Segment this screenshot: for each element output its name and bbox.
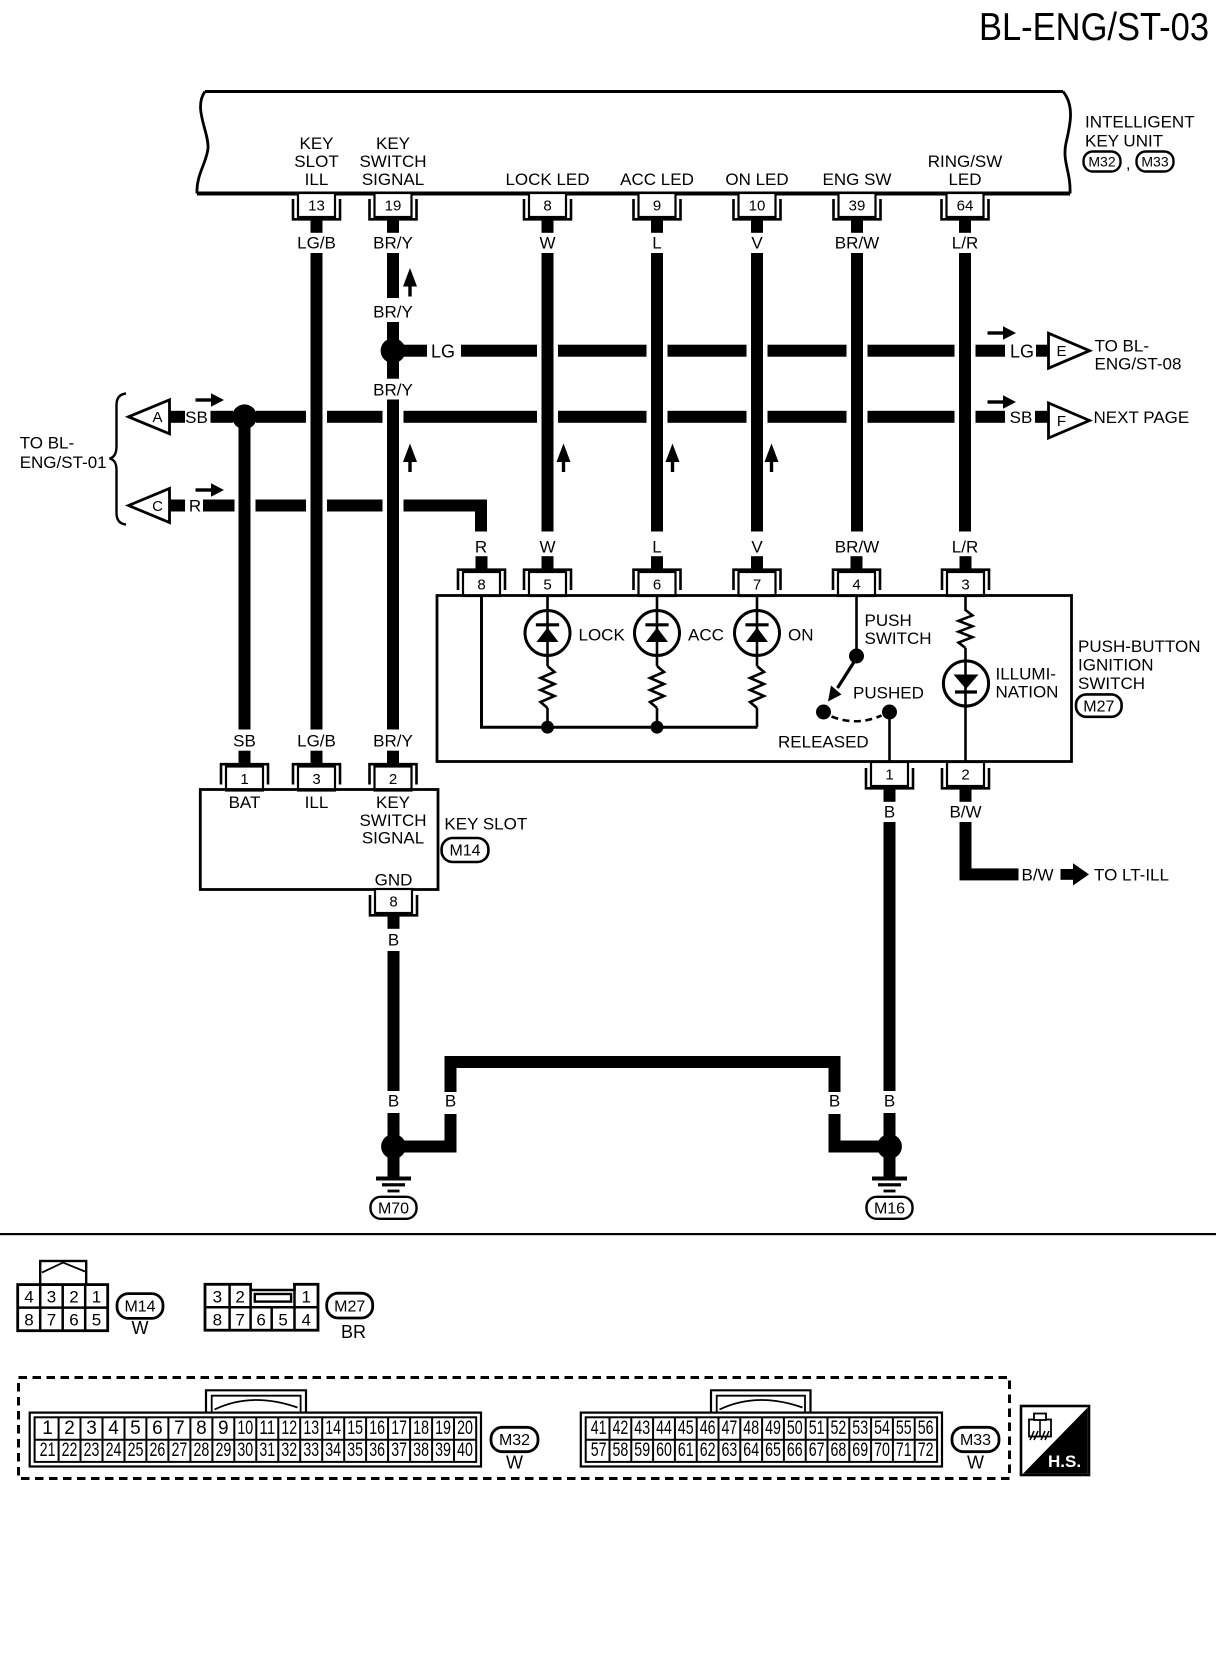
svg-text:F: F (1057, 413, 1066, 430)
wire BR/Y to LG junction (387, 322, 399, 345)
label L/R above pin 3 (952, 538, 978, 557)
label BR/Y above key slot (373, 732, 413, 751)
wire stub A (170, 411, 186, 423)
label TO BL-ENG/ST-08 (1095, 337, 1182, 374)
svg-text:3: 3 (47, 1287, 56, 1306)
svg-text:24: 24 (106, 1440, 122, 1461)
junction dot M70 (381, 1134, 406, 1159)
wire stub SB to dot (211, 411, 234, 423)
separator line (0, 1233, 1216, 1235)
ground M70 (371, 1147, 417, 1219)
connector label M33 (1137, 152, 1174, 172)
svg-text:ENG/ST-01: ENG/ST-01 (20, 453, 107, 472)
svg-text:2: 2 (961, 767, 969, 784)
svg-text:46: 46 (700, 1418, 716, 1439)
svg-text:1: 1 (42, 1418, 53, 1439)
svg-text:27: 27 (172, 1440, 188, 1461)
svg-text:BR/Y: BR/Y (373, 381, 413, 400)
svg-text:R: R (189, 497, 201, 516)
svg-text:,: , (1126, 156, 1130, 173)
wire ACC resistor to bus (656, 708, 659, 727)
svg-text:ILL: ILL (305, 170, 329, 189)
svg-text:KEY SLOT: KEY SLOT (444, 815, 527, 834)
svg-text:17: 17 (391, 1418, 407, 1439)
wire BR/Y upper segment (387, 253, 399, 298)
wire link right vertical lower (829, 1114, 841, 1147)
svg-text:3: 3 (213, 1287, 222, 1306)
wire B to ground M70 (388, 1113, 400, 1141)
label B left (388, 1092, 399, 1111)
svg-text:57: 57 (591, 1440, 607, 1461)
svg-text:SB: SB (233, 732, 256, 751)
svg-text:15: 15 (347, 1418, 363, 1439)
svg-text:LOCK: LOCK (579, 626, 626, 645)
svg-text:72: 72 (918, 1440, 934, 1461)
arrow up on BR/Y upper (403, 268, 417, 297)
svg-text:B: B (884, 803, 895, 822)
label KEY SWITCH SIGNAL (key slot) (359, 793, 426, 848)
svg-text:23: 23 (84, 1440, 100, 1461)
wire link left vertical upper (445, 1056, 457, 1092)
wire V vertical (751, 253, 763, 532)
svg-text:54: 54 (874, 1418, 890, 1439)
svg-text:L/R: L/R (952, 538, 978, 557)
svg-text:32: 32 (281, 1440, 297, 1461)
svg-text:W: W (967, 1453, 984, 1473)
label ILLUMI-NATION (996, 665, 1059, 702)
bus SB horizontal (256, 411, 1005, 423)
svg-text:SIGNAL: SIGNAL (362, 170, 424, 189)
H.S. inspection mark (1021, 1406, 1089, 1475)
label ENG SW (823, 170, 892, 189)
svg-text:68: 68 (831, 1440, 847, 1461)
connector label M27 (bottom) (327, 1293, 373, 1318)
wire link bottom right (829, 1141, 885, 1153)
svg-text:R: R (475, 538, 487, 557)
wire B to ground M16 (884, 1113, 896, 1141)
label ACC (688, 626, 724, 645)
label RING/SW LED (928, 152, 1003, 189)
label W (539, 234, 555, 253)
svg-text:W: W (506, 1453, 523, 1473)
label INTELLIGENT KEY UNIT (1085, 113, 1195, 151)
junction dot LOCK (541, 721, 554, 734)
svg-text:19: 19 (385, 198, 402, 215)
label BR/Y (373, 234, 413, 253)
pin 8 (key slot GND) (370, 889, 417, 929)
wire B switch down (884, 822, 896, 1091)
LED ACC (635, 611, 680, 656)
svg-text:19: 19 (435, 1418, 451, 1439)
svg-text:60: 60 (656, 1440, 672, 1461)
svg-text:25: 25 (128, 1440, 144, 1461)
label L (652, 234, 661, 253)
resistor ACC (650, 666, 664, 708)
label B/W under pin 2 (949, 803, 981, 822)
svg-text:SWITCH: SWITCH (1078, 674, 1145, 693)
svg-text:70: 70 (874, 1440, 890, 1461)
switch arm (828, 662, 854, 702)
svg-text:NATION: NATION (996, 683, 1059, 702)
label ON LED (725, 170, 788, 189)
svg-text:ON: ON (788, 626, 814, 645)
svg-text:A: A (152, 409, 162, 426)
svg-text:39: 39 (849, 198, 866, 215)
switch released dot (816, 705, 831, 720)
svg-text:BL-ENG/ST-03: BL-ENG/ST-03 (979, 6, 1209, 49)
pin 2 (key slot) (370, 751, 417, 791)
svg-text:B/W: B/W (1022, 866, 1054, 885)
svg-text:16: 16 (369, 1418, 385, 1439)
label BR/Y mid2 (373, 381, 413, 400)
arrow up on BR/Y lower (403, 444, 417, 473)
label SB right (1010, 408, 1033, 427)
wire BR/Y lower segment (387, 400, 399, 730)
svg-text:14: 14 (325, 1418, 341, 1439)
wire link bottom left (399, 1141, 457, 1153)
svg-text:53: 53 (852, 1418, 868, 1439)
wire B key slot down (388, 951, 400, 1091)
svg-text:49: 49 (765, 1418, 781, 1439)
pin 1 (key slot) (221, 751, 268, 791)
svg-text:B: B (388, 931, 399, 950)
svg-text:65: 65 (765, 1440, 781, 1461)
label B right (884, 1092, 895, 1111)
label B link left (445, 1092, 456, 1111)
junction dot SB (232, 404, 257, 429)
svg-text:64: 64 (957, 198, 974, 215)
pin 2 (942, 762, 989, 802)
svg-text:10: 10 (749, 198, 766, 215)
svg-text:BR/W: BR/W (835, 234, 879, 253)
svg-text:M27: M27 (1083, 698, 1114, 715)
svg-text:L/R: L/R (952, 234, 978, 253)
svg-text:13: 13 (303, 1418, 319, 1439)
svg-text:56: 56 (918, 1418, 934, 1439)
svg-text:64: 64 (743, 1440, 759, 1461)
svg-text:3: 3 (961, 577, 969, 594)
connector C from BL-ENG/ST-01 (129, 489, 170, 523)
label R left (189, 497, 201, 516)
svg-text:45: 45 (678, 1418, 694, 1439)
svg-text:1: 1 (240, 771, 248, 788)
svg-text:2: 2 (69, 1287, 78, 1306)
svg-text:67: 67 (809, 1440, 825, 1461)
svg-text:43: 43 (634, 1418, 650, 1439)
svg-text:ILL: ILL (305, 793, 329, 812)
wire LG/B vertical (311, 253, 323, 730)
svg-text:W: W (132, 1318, 149, 1338)
svg-text:2: 2 (235, 1287, 244, 1306)
label SB above key slot (233, 732, 256, 751)
wire pushed to pin1 (888, 718, 891, 761)
svg-text:SB: SB (185, 408, 208, 427)
connector M27 pin view (205, 1281, 318, 1330)
label LOCK LED (505, 170, 589, 189)
arrow to LT-ILL (1061, 863, 1090, 885)
svg-text:B/W: B/W (949, 803, 981, 822)
arrow right on LG end (988, 326, 1017, 340)
switch pushed dot (882, 705, 897, 720)
pin 5 (524, 556, 571, 596)
svg-text:4: 4 (24, 1287, 33, 1306)
pin 3 (key slot) (293, 751, 340, 791)
label ON (788, 626, 814, 645)
svg-text:TO BL-: TO BL- (1095, 337, 1149, 356)
label W under M33 (967, 1453, 984, 1473)
wire pin5 to LED (546, 596, 549, 666)
arrow right near C (196, 483, 225, 497)
svg-text:1: 1 (301, 1287, 310, 1306)
label NEXT PAGE (1094, 408, 1190, 427)
connector label M14 (side) (442, 838, 489, 862)
svg-text:52: 52 (831, 1418, 847, 1439)
label W under M14 (132, 1318, 149, 1338)
wire SB drop to key slot (239, 417, 251, 730)
switch pivot dot (849, 649, 864, 664)
svg-text:66: 66 (787, 1440, 803, 1461)
svg-text:6: 6 (69, 1310, 78, 1329)
svg-text:39: 39 (435, 1440, 451, 1461)
svg-text:30: 30 (237, 1440, 253, 1461)
svg-text:50: 50 (787, 1418, 803, 1439)
svg-text:M32: M32 (499, 1432, 530, 1449)
svg-text:51: 51 (809, 1418, 825, 1439)
junction dot BR/Y-LG (381, 338, 406, 363)
svg-text:GND: GND (375, 871, 413, 890)
svg-text:8: 8 (213, 1310, 222, 1329)
svg-text:41: 41 (591, 1418, 607, 1439)
svg-text:13: 13 (308, 198, 325, 215)
switch dashed arc (832, 716, 882, 722)
svg-text:11: 11 (259, 1418, 275, 1439)
label W above pin 5 (539, 538, 555, 557)
label TO LT-ILL (1094, 866, 1169, 885)
wire link right vertical upper (829, 1056, 841, 1092)
wire pin8 internal (482, 596, 758, 727)
svg-text:34: 34 (325, 1440, 341, 1461)
comma (1126, 156, 1130, 173)
svg-text:INTELLIGENT: INTELLIGENT (1085, 113, 1195, 132)
svg-text:W: W (539, 234, 555, 253)
svg-text:SWITCH: SWITCH (865, 629, 932, 648)
svg-text:M14: M14 (449, 843, 480, 860)
svg-text:28: 28 (193, 1440, 209, 1461)
svg-text:37: 37 (391, 1440, 407, 1461)
svg-text:9: 9 (218, 1418, 229, 1439)
label BR/W (835, 234, 879, 253)
label BAT (229, 793, 261, 812)
svg-text:L: L (652, 538, 661, 557)
svg-text:8: 8 (389, 894, 397, 911)
wire L vertical (651, 253, 663, 532)
svg-text:2: 2 (389, 771, 397, 788)
label L/R (952, 234, 978, 253)
label LG/B above key slot (297, 732, 336, 751)
label B/W right (1022, 866, 1054, 885)
svg-text:7: 7 (174, 1418, 185, 1439)
arrow right on SB end (988, 395, 1017, 409)
svg-text:3: 3 (86, 1418, 97, 1439)
svg-text:LOCK LED: LOCK LED (505, 170, 589, 189)
svg-text:4: 4 (852, 577, 860, 594)
wire link top horizontal (445, 1056, 841, 1068)
svg-text:M27: M27 (334, 1298, 365, 1315)
svg-text:58: 58 (613, 1440, 629, 1461)
label LG left (431, 342, 455, 362)
label V (751, 234, 763, 253)
svg-text:7: 7 (753, 577, 761, 594)
label B under key slot (388, 931, 399, 950)
pin 19 (370, 193, 417, 233)
svg-text:SB: SB (1010, 408, 1033, 427)
wire LOCK resistor to bus (546, 708, 549, 727)
label W under M32 (506, 1453, 523, 1473)
svg-text:8: 8 (196, 1418, 207, 1439)
wire B/W down (960, 822, 972, 874)
connector M14 pin view (18, 1261, 108, 1331)
svg-text:6: 6 (653, 577, 661, 594)
svg-text:TO LT-ILL: TO LT-ILL (1094, 866, 1169, 885)
svg-text:10: 10 (237, 1418, 253, 1439)
connector label M32 (1084, 152, 1121, 172)
svg-text:BR/Y: BR/Y (373, 234, 413, 253)
svg-text:M33: M33 (960, 1432, 991, 1449)
label SB left (185, 408, 208, 427)
svg-text:ILLUMI-: ILLUMI- (996, 665, 1056, 684)
connector M33 pin view (581, 1390, 942, 1466)
svg-text:22: 22 (62, 1440, 78, 1461)
connector E to BL-ENG/ST-08 (1049, 333, 1090, 368)
label BR/W above pin 4 (835, 538, 879, 557)
svg-text:5: 5 (92, 1310, 101, 1329)
pin 64 (942, 193, 989, 233)
pin 10 (734, 193, 781, 233)
svg-text:2: 2 (64, 1418, 75, 1439)
wire link left vertical lower (445, 1114, 457, 1147)
svg-text:4: 4 (301, 1310, 310, 1329)
title BL-ENG/ST-03 (979, 6, 1209, 49)
svg-text:8: 8 (543, 198, 551, 215)
wire stub to connector E (1036, 345, 1049, 357)
label RELEASED (778, 733, 869, 752)
connector label M27 (side) (1076, 694, 1122, 716)
svg-text:48: 48 (743, 1418, 759, 1439)
resistor ON (750, 666, 764, 708)
svg-text:M70: M70 (378, 1200, 409, 1217)
svg-text:12: 12 (281, 1418, 297, 1439)
svg-text:1: 1 (92, 1287, 101, 1306)
label R above pin 8 (475, 538, 487, 557)
arrow up on W (557, 444, 571, 473)
svg-text:35: 35 (347, 1440, 363, 1461)
label L above pin 6 (652, 538, 661, 557)
svg-text:8: 8 (477, 577, 485, 594)
pin 8 (switch) (458, 556, 505, 596)
svg-text:ACC: ACC (688, 626, 724, 645)
bus R horizontal (203, 500, 487, 512)
svg-text:ACC LED: ACC LED (620, 170, 694, 189)
svg-text:LG: LG (431, 342, 455, 362)
arrow up on V (765, 444, 779, 473)
svg-text:LG/B: LG/B (297, 234, 336, 253)
brace (110, 394, 127, 525)
label KEY SLOT (444, 815, 527, 834)
svg-text:M33: M33 (1141, 153, 1168, 169)
connector A from BL-ENG/ST-01 (129, 400, 170, 434)
svg-text:B: B (388, 1092, 399, 1111)
label LG/B (297, 234, 336, 253)
svg-text:KEY UNIT: KEY UNIT (1085, 132, 1163, 151)
wire B/W corner right (960, 868, 1019, 880)
svg-text:M16: M16 (874, 1200, 905, 1217)
connector label M14 (bottom) (117, 1294, 163, 1319)
svg-text:V: V (751, 234, 763, 253)
label V above pin 7 (751, 538, 763, 557)
LED ON (735, 611, 780, 656)
label ACC LED (620, 170, 694, 189)
pin 8 (key unit) (524, 193, 571, 233)
pin 9 (634, 193, 681, 233)
svg-text:5: 5 (278, 1310, 287, 1329)
wire stub C (170, 500, 186, 512)
label LG right (1010, 342, 1034, 362)
LED ILLUMINATION (943, 661, 988, 706)
push-button ignition switch box (437, 596, 1072, 762)
label KEY SWITCH SIGNAL (359, 134, 426, 189)
LED LOCK (525, 611, 570, 656)
svg-text:KEY: KEY (376, 134, 410, 153)
connector M32 pin view (30, 1390, 481, 1466)
label GND (375, 871, 413, 890)
svg-text:B: B (829, 1092, 840, 1111)
label PUSH SWITCH (865, 611, 932, 648)
svg-text:BR/Y: BR/Y (373, 303, 413, 322)
svg-text:21: 21 (40, 1440, 56, 1461)
svg-text:69: 69 (852, 1440, 868, 1461)
resistor ILLUMINATION (959, 610, 973, 648)
svg-text:LED: LED (948, 170, 981, 189)
svg-text:59: 59 (634, 1440, 650, 1461)
svg-text:38: 38 (413, 1440, 429, 1461)
svg-text:1: 1 (885, 767, 893, 784)
wire pin6 to LED (656, 596, 659, 666)
svg-text:7: 7 (47, 1310, 56, 1329)
svg-text:18: 18 (413, 1418, 429, 1439)
bus LG horizontal (394, 345, 1005, 357)
svg-text:7: 7 (235, 1310, 244, 1329)
wire R corner down (475, 500, 487, 532)
wire BR/Y below junction (387, 357, 399, 379)
svg-text:8: 8 (24, 1310, 33, 1329)
svg-text:ON LED: ON LED (725, 170, 788, 189)
pin 39 (834, 193, 881, 233)
label PUSH-BUTTON IGNITION SWITCH (1078, 637, 1200, 693)
junction dot ACC (651, 721, 664, 734)
svg-text:KEY: KEY (376, 793, 410, 812)
svg-text:KEY: KEY (299, 134, 333, 153)
svg-text:B: B (884, 1092, 895, 1111)
svg-text:PUSH-BUTTON: PUSH-BUTTON (1078, 637, 1200, 656)
svg-text:IGNITION: IGNITION (1078, 656, 1154, 675)
svg-text:5: 5 (130, 1418, 141, 1439)
wire ON resistor to bus (756, 708, 759, 727)
svg-text:9: 9 (653, 198, 661, 215)
svg-text:RELEASED: RELEASED (778, 733, 869, 752)
connector label M32 (bottom) (491, 1427, 538, 1451)
svg-text:H.S.: H.S. (1048, 1452, 1081, 1471)
svg-text:SIGNAL: SIGNAL (362, 829, 424, 848)
